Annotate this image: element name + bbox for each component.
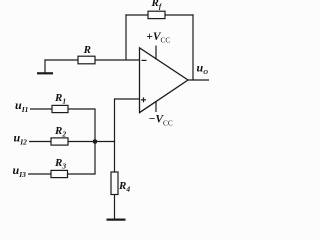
wire input row 1 left [30, 108, 52, 110]
svg-text:R: R [83, 44, 91, 56]
wire row 1 vertical drop to node [94, 109, 96, 142]
label uI2 [14, 131, 28, 147]
resistor Rf [148, 11, 165, 18]
wire input row 2 left [29, 141, 51, 143]
label uO [197, 61, 209, 76]
wire ground riser left [44, 59, 46, 73]
label Rf [151, 0, 163, 10]
resistor R [78, 56, 95, 64]
wire non-inverting input horizontal [115, 98, 140, 100]
wire row 3 vertical rise to node [94, 142, 96, 175]
wire input row 3 left [28, 173, 51, 175]
label R1 [54, 92, 66, 106]
node summing junction [93, 139, 98, 144]
label R3 [54, 157, 66, 171]
op-amp -Vcc supply pin [155, 101, 157, 112]
label R2 [54, 125, 66, 139]
wire inverting input left segment [44, 59, 78, 61]
op-amp +Vcc supply pin [155, 46, 157, 60]
wire feedback top-right horizontal [165, 14, 194, 16]
resistor R1 [52, 105, 68, 112]
label R4 [118, 180, 130, 194]
wire input row 3 right [68, 173, 96, 175]
wire feedback left vertical to inverting node [125, 14, 127, 60]
ground (left) [37, 72, 53, 74]
resistor R3 [51, 170, 68, 177]
ground (bottom) [107, 219, 126, 221]
wire input row 2 right through node [68, 141, 115, 143]
wire input row 1 right [68, 108, 96, 110]
op-amp [140, 48, 189, 113]
label uI3 [13, 163, 27, 179]
op-amp inverting pin mark [142, 59, 147, 61]
resistor R4 [111, 172, 118, 195]
wire inverting input right segment [95, 59, 140, 61]
wire output [188, 79, 209, 81]
label -Vcc [148, 114, 172, 128]
resistor R2 [51, 138, 68, 145]
label R [83, 44, 91, 56]
label uI1 [15, 98, 28, 114]
wire feedback top-left horizontal [125, 14, 148, 16]
wire R4 to ground [114, 195, 116, 220]
wire feedback right vertical to output node [192, 14, 194, 80]
wire non-inverting branch vertical [114, 98, 116, 172]
label +Vcc [146, 31, 170, 45]
op-amp non-inverting pin mark [141, 97, 146, 102]
